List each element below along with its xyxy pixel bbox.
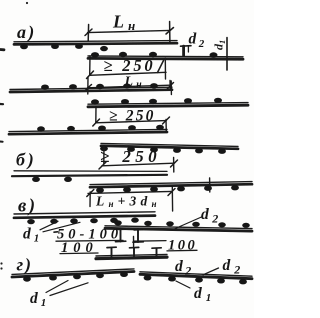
small dim line mid [134,240,167,243]
hanger bar 2 below D2 [137,229,139,242]
svg-text:≥ 250: ≥ 250 [109,108,156,125]
stander 1 on sub-bar [111,248,113,256]
bar D1 cross dots [27,218,139,225]
d1 dimension vertical [226,38,228,71]
bar A3 bottom line [9,132,167,134]
bar A2 bottom line [10,90,172,92]
dimension Ln row1 line [88,30,171,32]
svg-text:б): б) [16,150,37,171]
bar C3 top line [90,182,252,185]
underline 100 left [60,252,98,255]
d2 g leader [203,268,219,275]
d2 leader v [175,217,202,229]
bar B2 cross dots [91,98,222,105]
bar B2 top line [88,103,248,105]
bar B1 top line [88,55,243,58]
dim >=250 row2 ticks [93,119,100,126]
dimension Ln row1 left tick [87,25,89,42]
dim Ln+3dn line [88,191,172,193]
svg-text:а): а) [17,22,36,43]
stander 3 on sub-bar [156,249,158,256]
small dim tick mid [133,237,135,247]
bar A2 cross dots [41,83,158,90]
bar A2 top line [10,87,172,89]
stander 2 on sub-bar [133,248,135,256]
bar C3 cross dots [96,185,239,193]
dim >=250 row1 left tick [87,71,94,79]
bar A3 end tick [165,120,167,133]
bar D1 bottom line [14,216,155,218]
speck colon left [0,262,2,264]
bar A3 top line [9,129,167,131]
bar B1 bottom line [88,57,243,61]
bar E2 bottom line [140,274,252,278]
dim >=250 row1: left vertical [89,56,91,75]
dim Ln+3dn right tick [171,187,173,211]
bar C2 bottom line [12,175,167,176]
dim >=250 row2: left vertical [95,107,97,123]
bar C2 cross dots [32,177,72,182]
speck left edge 3 [0,141,3,143]
d1 leader 1 [40,221,58,230]
svg-text:≥ 250: ≥ 250 [104,56,156,75]
bar C1 cross dots below [100,146,226,154]
speck before 50-100 [54,231,58,233]
bar E1 top line [12,269,134,275]
underline 50-100 [56,239,123,242]
svg-text:Lн+3dн: Lн+3dн [95,194,161,210]
d1 g leaders [46,281,68,293]
bar C3 bottom line [90,184,252,187]
dim Ln+3dn left tick [89,192,91,207]
speck top [26,2,28,4]
bar C1 top line [101,143,238,146]
svg-text:г): г) [17,255,33,276]
bar D2 top line [105,226,252,229]
hanger bar 1 below D2 [120,229,122,242]
dim >=250 b: left vertical [103,147,105,164]
transverse bar symbol d2 on bar B1 [181,45,192,48]
dim >=250 row2 line [96,121,166,123]
dim Ln row2 line [88,85,171,88]
d1 leader 2 [43,222,80,232]
sub-bar bottom line [96,257,167,259]
bar A3 cross dots [37,125,164,132]
dim >=250 row1 right tick [158,61,164,73]
dim >=250 b line [102,163,174,166]
bar D1 top line [14,212,155,214]
speck left edge 2 [0,103,3,105]
sub-bar top line [96,254,167,256]
bar E1 bottom line [12,272,134,278]
svg-text:≥ 250: ≥ 250 [100,147,161,166]
bar D2 cross dots [114,220,250,228]
dimension Ln row1 right tick [169,22,171,44]
underline 100 right [167,249,197,252]
bar A1 top line [14,41,177,42]
bar C1 bottom line [101,146,238,149]
dim >=250 row1 line [90,72,167,75]
bar B1 cross dots [91,52,218,58]
bar B2 bottom line [88,105,248,107]
d1 g right leader [176,281,190,288]
bar A2 end tick [170,81,172,95]
bar E2 cross dots [144,275,247,284]
bar C3 tick [209,178,211,192]
speck left edge 1 [0,48,4,51]
dim Ln row2 right tick [167,83,174,90]
bar C2 top line [14,170,167,173]
dim Ln row2 left tick [87,77,89,94]
bar A1 bottom line [14,43,177,44]
dim >=250 b ticks [99,162,106,169]
bar E2 top line [140,272,252,276]
bar A1 cross dots [20,44,108,52]
bar E1 cross dots [23,272,128,282]
bar D2 bottom line [105,228,252,231]
